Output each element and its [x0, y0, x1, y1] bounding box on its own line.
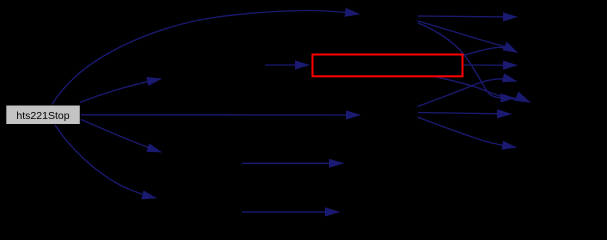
edge C->R6 (horizontal) — [418, 113, 511, 115]
edge red->R5 — [434, 76, 530, 102]
edge A->R2 — [418, 21, 518, 52]
edge red->R2 — [463, 47, 517, 55]
edge hts221Stop->E (lower curve) — [55, 125, 156, 198]
edge hts221Stop->D — [81, 120, 161, 153]
edge D->F (horizontal) — [242, 162, 343, 164]
node hts221Stop — [6, 105, 81, 125]
svg-text:hts221Stop: hts221Stop — [16, 110, 69, 122]
edge hts221Stop->B — [80, 79, 161, 103]
edge C->R4 — [418, 79, 517, 107]
edge hts221Stop->A (long top curve) — [52, 11, 359, 105]
edge A->R5 (steep curve to big arrow) — [418, 23, 515, 98]
edge C->R7 — [418, 117, 517, 147]
edge hts221Stop->C (horizontal) — [81, 114, 360, 116]
edge A->R1 (horizontal) — [418, 16, 518, 17]
edge B->red — [265, 64, 309, 66]
edge E->G (horizontal) — [242, 211, 339, 213]
edge red->R3 (horizontal) — [463, 64, 517, 66]
node red (truncated node, red border) — [313, 55, 463, 77]
